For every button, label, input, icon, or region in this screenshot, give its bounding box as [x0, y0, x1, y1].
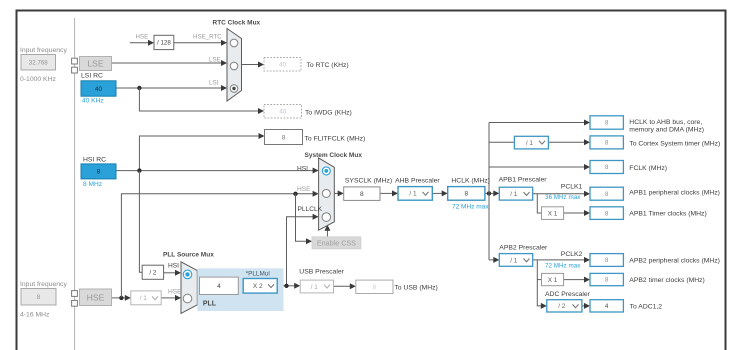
svg-text:PCLK1: PCLK1 [561, 184, 583, 191]
svg-text:X 1: X 1 [548, 277, 558, 284]
svg-text:/ 1: / 1 [311, 284, 319, 291]
svg-text:X 2: X 2 [253, 283, 263, 290]
svg-text:USB Prescaler: USB Prescaler [299, 269, 344, 276]
svg-text:HCLK (MHz): HCLK (MHz) [451, 178, 490, 185]
svg-text:8: 8 [373, 284, 377, 291]
svg-text:PLL: PLL [203, 300, 216, 307]
svg-text:/ 1: / 1 [140, 295, 148, 302]
svg-text:/ 2: / 2 [149, 270, 156, 277]
svg-text:72 MHz max: 72 MHz max [452, 204, 489, 211]
svg-text:LSE: LSE [87, 59, 104, 69]
svg-text:36 MHz max: 36 MHz max [545, 194, 581, 201]
svg-text:40: 40 [279, 109, 287, 116]
svg-text:Enable CSS: Enable CSS [317, 238, 356, 247]
svg-text:RTC Clock Mux: RTC Clock Mux [213, 20, 261, 27]
svg-text:To ADC1,2: To ADC1,2 [630, 304, 663, 311]
svg-text:LSE: LSE [209, 56, 221, 63]
svg-text:To IWDG (KHz): To IWDG (KHz) [305, 110, 352, 117]
svg-text:8: 8 [360, 191, 364, 198]
svg-text:/ 1: / 1 [409, 191, 417, 198]
svg-text:40 KHz: 40 KHz [82, 98, 104, 105]
svg-text:/ 2: / 2 [558, 303, 566, 310]
svg-text:APB2 peripheral clocks (MHz): APB2 peripheral clocks (MHz) [629, 258, 720, 265]
svg-text:32.768: 32.768 [29, 59, 48, 66]
svg-text:ADC Prescaler: ADC Prescaler [545, 291, 591, 298]
svg-text:PCLK2: PCLK2 [561, 251, 583, 258]
svg-text:*PLLMul: *PLLMul [246, 270, 270, 277]
svg-text:4: 4 [217, 283, 221, 290]
svg-text:APB1 Timer clocks (MHz): APB1 Timer clocks (MHz) [629, 211, 706, 218]
svg-text:HSE_RTC: HSE_RTC [193, 34, 222, 41]
svg-text:HSI RC: HSI RC [83, 157, 106, 164]
svg-text:8: 8 [464, 191, 468, 198]
svg-text:HCLK to AHB bus, core,: HCLK to AHB bus, core, [629, 119, 702, 126]
svg-text:HSI: HSI [168, 262, 179, 269]
svg-text:40: 40 [95, 86, 103, 93]
svg-text:APB1 Prescaler: APB1 Prescaler [499, 176, 548, 183]
svg-text:PLLCLK: PLLCLK [298, 206, 323, 213]
svg-text:40: 40 [279, 62, 287, 69]
svg-text:FCLK (MHz): FCLK (MHz) [629, 165, 667, 172]
svg-text:AHB Prescaler: AHB Prescaler [395, 178, 440, 185]
svg-text:LSI: LSI [209, 80, 219, 87]
svg-text:LSI RC: LSI RC [81, 72, 103, 79]
svg-text:APB1 peripheral clocks (MHz): APB1 peripheral clocks (MHz) [629, 190, 720, 197]
svg-text:HSE: HSE [136, 34, 149, 41]
svg-text:memory and DMA (MHz): memory and DMA (MHz) [629, 126, 704, 133]
svg-text:/ 1: / 1 [510, 191, 518, 198]
svg-text:0-1000 KHz: 0-1000 KHz [20, 76, 56, 83]
svg-text:PLL Source Mux: PLL Source Mux [163, 252, 214, 259]
svg-text:System Clock Mux: System Clock Mux [305, 152, 363, 159]
svg-text:/ 1: / 1 [526, 140, 534, 147]
svg-text:APB2 Prescaler: APB2 Prescaler [499, 245, 548, 252]
svg-text:8: 8 [282, 134, 286, 141]
svg-text:72 MHz max: 72 MHz max [545, 262, 581, 269]
svg-text:HSE: HSE [297, 186, 311, 193]
svg-text:4-16 MHz: 4-16 MHz [20, 312, 50, 319]
svg-text:HSE: HSE [87, 292, 105, 302]
svg-text:8: 8 [37, 294, 41, 301]
svg-text:Input frequency: Input frequency [20, 281, 67, 288]
svg-text:X 1: X 1 [548, 210, 558, 217]
svg-text:To USB (MHz): To USB (MHz) [394, 285, 437, 292]
svg-text:SYSCLK (MHz): SYSCLK (MHz) [345, 178, 392, 185]
svg-text:/ 1: / 1 [510, 257, 518, 264]
svg-text:HSE: HSE [168, 288, 182, 295]
svg-text:APB2 timer clocks (MHz): APB2 timer clocks (MHz) [629, 277, 705, 284]
svg-text:HSI: HSI [297, 165, 308, 172]
svg-text:8 MHz: 8 MHz [83, 181, 102, 188]
svg-text:To FLITFCLK (MHz): To FLITFCLK (MHz) [305, 135, 366, 142]
svg-text:/ 128: / 128 [157, 40, 171, 47]
svg-text:To Cortex System timer (MHz): To Cortex System timer (MHz) [629, 140, 720, 147]
svg-text:Input frequency: Input frequency [20, 47, 67, 54]
svg-text:To RTC (KHz): To RTC (KHz) [307, 62, 349, 69]
svg-text:8: 8 [97, 169, 101, 176]
